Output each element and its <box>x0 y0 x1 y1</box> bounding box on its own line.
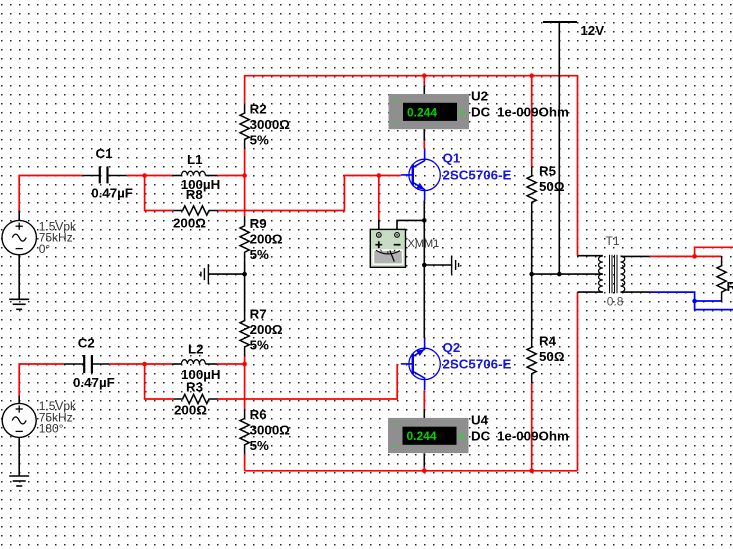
svg-text:R4: R4 <box>539 334 557 349</box>
svg-text:T1: T1 <box>606 234 620 248</box>
svg-text:U2: U2 <box>471 88 488 103</box>
svg-text:3000Ω: 3000Ω <box>250 422 291 437</box>
node secondary bottom/load junction <box>692 299 697 304</box>
node rail-U2 junction <box>422 73 427 78</box>
svg-text:5%: 5% <box>250 438 269 453</box>
wire Q1 emitter rail down to Q2 emitter <box>423 201 425 339</box>
svg-text:Q1: Q1 <box>443 151 461 166</box>
node C2/L2 junction <box>142 362 147 367</box>
inductor L2 <box>172 342 220 383</box>
wire R8 out to Q1 base <box>218 176 400 211</box>
svg-text:0.47µF: 0.47µF <box>73 375 115 390</box>
wire Q2 collector to U4 top <box>423 390 425 418</box>
wire U4 bottom to rail <box>423 453 425 471</box>
wire V1 to C1 <box>19 176 82 222</box>
capacitor C1 <box>82 146 133 201</box>
resistor R5 <box>527 163 565 211</box>
transistor Q1 2SC5706-E <box>401 149 512 201</box>
wire XMM1 minus lead to emitter rail <box>397 220 424 232</box>
wire node to R6 top <box>244 364 246 409</box>
wire rail down to T1 primary top <box>577 75 579 256</box>
wire L2 out to R7/R6 node <box>217 363 244 365</box>
wire node to R9 top <box>244 176 246 217</box>
svg-text:200Ω: 200Ω <box>250 232 283 247</box>
node U4/bottom rail junction <box>422 469 427 474</box>
wire XMM1 plus lead <box>378 176 380 233</box>
wire R3 out to Q2 base <box>218 364 397 399</box>
transistor Q2 2SC5706-E <box>401 338 512 390</box>
svg-text:DC: DC <box>471 104 491 119</box>
node 12V/center-tap junction <box>557 272 562 277</box>
svg-text:1e-009Ohm: 1e-009Ohm <box>497 429 569 444</box>
wire node down to R8 row <box>145 176 174 211</box>
node R4/bottom rail junction <box>529 469 534 474</box>
svg-text:2SC5706-E: 2SC5706-E <box>443 356 512 371</box>
wire R9 bottom to bias node <box>244 262 246 275</box>
svg-text:R6: R6 <box>250 407 267 422</box>
svg-text:+: + <box>393 442 398 452</box>
wire L1 out to R2/R9 node <box>217 175 244 177</box>
wire T1 secondary top lead <box>621 255 650 257</box>
wire R7 bottom to node <box>244 356 246 364</box>
ground below V2 <box>9 437 29 486</box>
svg-text:R5: R5 <box>539 163 557 178</box>
svg-text:R7: R7 <box>250 306 267 321</box>
svg-text:U4: U4 <box>471 413 489 428</box>
svg-text:200Ω: 200Ω <box>174 403 207 418</box>
node C1/L1 junction <box>142 173 147 178</box>
svg-text:A: A <box>459 107 467 119</box>
node R7/R6/L2 junction <box>242 362 247 367</box>
wire T1 secondary bottom lead <box>621 291 650 293</box>
wire T1 primary top <box>578 255 603 257</box>
ammeter U2 <box>389 88 570 129</box>
wire rail to R5 top <box>531 75 533 167</box>
node R5/R4/center-tap junction <box>529 272 534 277</box>
svg-text:0.8: 0.8 <box>607 295 624 309</box>
wire rail up to T1 primary bottom <box>577 292 579 471</box>
node rail-R5 junction <box>529 73 534 78</box>
wire R4 bottom to rail <box>531 383 533 471</box>
wire center-tap node to R4 top <box>531 274 533 338</box>
svg-text:R: R <box>727 279 733 294</box>
svg-text:5%: 5% <box>250 338 269 353</box>
svg-text:+: + <box>393 96 398 106</box>
svg-text:–: – <box>394 118 399 128</box>
wire V2 to C2 <box>19 364 64 404</box>
resistor R7 <box>240 306 283 356</box>
wire bottom red rail <box>245 470 578 472</box>
svg-text:Q2: Q2 <box>443 340 461 355</box>
resistor R6 <box>240 407 290 454</box>
node XMM1 minus/emitter junction <box>422 218 427 223</box>
resistor R2 <box>240 101 290 148</box>
svg-text:12V: 12V <box>580 23 604 38</box>
wire T1 primary bottom <box>578 291 603 293</box>
AC source V2 1.5Vpk 75kHz 180deg <box>2 399 77 437</box>
svg-text:0°: 0° <box>39 242 51 256</box>
AC source V1 1.5Vpk 75kHz 0deg <box>2 220 77 256</box>
svg-text:C2: C2 <box>78 335 95 350</box>
svg-text:200Ω: 200Ω <box>250 322 283 337</box>
power supply 12V <box>543 22 604 274</box>
wire load resistor bottom lead <box>721 300 723 302</box>
wire T1 secondary top to load node <box>650 255 722 257</box>
svg-text:5%: 5% <box>250 247 269 262</box>
svg-text:50Ω: 50Ω <box>539 349 565 364</box>
svg-text:5%: 5% <box>250 132 269 147</box>
svg-text:L1: L1 <box>187 152 203 167</box>
resistor R4 <box>527 334 565 384</box>
wire top red rail V+ row <box>245 75 578 77</box>
svg-text:L2: L2 <box>188 342 204 357</box>
resistor R8 <box>173 187 218 231</box>
wire bias node to left ground <box>208 273 244 275</box>
capacitor C2 <box>64 335 115 390</box>
svg-text:2SC5706-E: 2SC5706-E <box>443 167 512 182</box>
svg-text:1e-009Ohm: 1e-009Ohm <box>497 104 569 119</box>
node secondary top/load junction <box>692 254 697 259</box>
svg-text:–: – <box>393 419 398 429</box>
ammeter U4 <box>388 413 569 454</box>
wire R2 bottom to node <box>244 149 246 176</box>
svg-text:XMM1: XMM1 <box>408 238 440 250</box>
svg-text:200Ω: 200Ω <box>173 216 206 231</box>
svg-text:3000Ω: 3000Ω <box>250 117 291 132</box>
inductor L1 <box>172 152 220 192</box>
ground right of emitter rail <box>452 256 459 275</box>
node R9/R7/ground junction <box>242 272 247 277</box>
transformer T1 <box>599 234 625 309</box>
svg-text:C1: C1 <box>96 146 114 161</box>
svg-text:50Ω: 50Ω <box>539 179 565 194</box>
wire load node up and out right <box>695 247 733 256</box>
svg-text:R2: R2 <box>250 101 267 116</box>
svg-text:R9: R9 <box>250 216 267 231</box>
wire C2 to L2 node <box>109 363 172 365</box>
node R2/R9/L1 junction <box>242 173 247 178</box>
multimeter XMM1 <box>370 229 439 267</box>
wire R6 bottom to bottom rail <box>244 454 246 471</box>
resistor R load <box>717 256 733 301</box>
wire T1 secondary bottom to load (blue net) <box>650 292 722 301</box>
svg-text:100µH: 100µH <box>181 367 221 382</box>
resistor R9 <box>240 216 283 262</box>
svg-text:100µH: 100µH <box>181 177 221 192</box>
ground left of bias node <box>201 264 209 284</box>
node Q1 base/XMM1 junction <box>377 173 382 178</box>
wire emitter rail to ground tap <box>424 264 451 266</box>
svg-text:180°: 180° <box>39 422 64 436</box>
svg-text:0.47µF: 0.47µF <box>91 186 133 201</box>
node emitter/ground junction <box>422 263 427 268</box>
svg-text:A: A <box>458 431 466 443</box>
wire center tap to T1 <box>532 273 603 275</box>
wire R5 bottom to center-tap node <box>531 212 533 274</box>
wire blue node out right <box>695 301 733 310</box>
wire bias node to R7 top <box>244 274 246 311</box>
svg-text:0.244: 0.244 <box>407 429 437 443</box>
resistor R3 <box>173 380 218 418</box>
wire U2 bottom to Q1 collector <box>423 129 425 149</box>
wire U2 top to rail <box>423 76 425 95</box>
svg-text:DC: DC <box>471 429 491 444</box>
ground below V1 <box>9 255 29 309</box>
wire C1 to L1 node <box>127 175 172 177</box>
wire node down to R3 row <box>145 364 174 399</box>
svg-text:0.244: 0.244 <box>407 105 437 119</box>
wire R2 top lead from rail <box>244 75 246 104</box>
